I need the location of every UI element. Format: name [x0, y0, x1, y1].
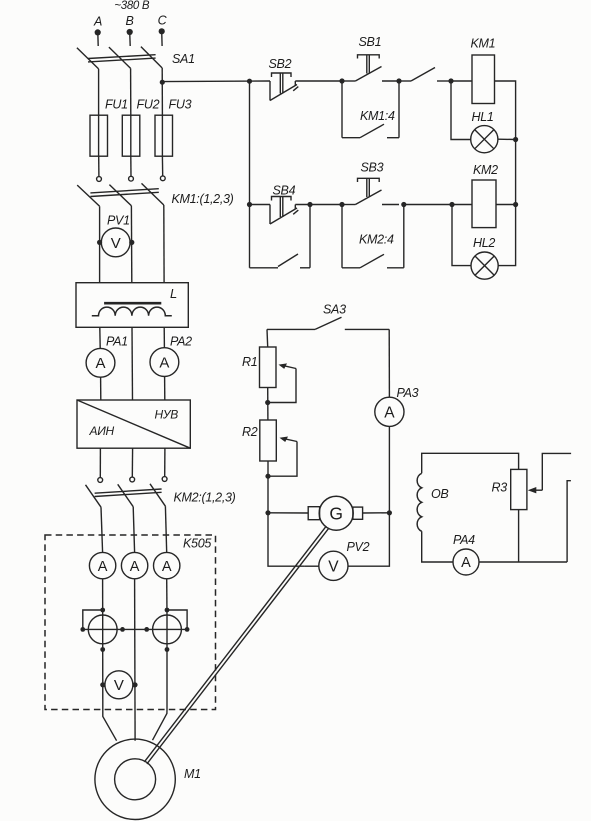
node wattmeter left top	[100, 608, 105, 613]
svg-text:R2: R2	[242, 425, 258, 439]
svg-text:KM2:4: KM2:4	[359, 233, 394, 247]
motor M1 stator	[95, 739, 175, 819]
voltmeter K505	[103, 684, 105, 686]
wire phase B L to AIN	[131, 327, 134, 400]
coil KM1	[472, 55, 495, 104]
node left bus rung2	[247, 202, 252, 207]
svg-text:~380 В: ~380 В	[114, 0, 150, 12]
svg-text:B: B	[125, 14, 133, 28]
contactor KM2 pole 3 fixed contact	[162, 477, 167, 482]
svg-text:R1: R1	[242, 355, 257, 369]
wire motor lead B	[134, 710, 136, 741]
svg-text:PA2: PA2	[170, 335, 192, 349]
node wattmeter right bottom	[165, 647, 170, 652]
converter diagonal	[77, 400, 190, 448]
auxiliary contact KM1:4	[342, 137, 360, 139]
wire phase A ammeter to wattmeter	[102, 579, 104, 615]
svg-text:A: A	[162, 559, 172, 575]
wire phase C wattmeter to box bottom	[166, 644, 168, 710]
wire KM1:4 branch left leg	[341, 81, 343, 138]
wire phase B to fuse	[130, 68, 132, 115]
svg-text:FU3: FU3	[169, 98, 192, 112]
svg-text:KM1:4: KM1:4	[360, 109, 395, 123]
svg-text:A: A	[95, 355, 105, 372]
svg-text:KM1: KM1	[471, 37, 496, 51]
contactor KM1 pole 1 fixed contact	[97, 177, 102, 182]
wire R3 bottom leg	[518, 510, 520, 562]
wattmeter left bypass bracket	[83, 610, 103, 629]
svg-text:НУВ: НУВ	[155, 408, 179, 422]
contactor KM2 pole 1 blade	[86, 485, 102, 507]
contactor KM1 pole 3 fixed contact	[160, 176, 165, 181]
contactor KM2 pole 3 blade	[150, 484, 165, 506]
generator G right brush	[353, 507, 363, 519]
wattmeter right circle	[153, 615, 182, 644]
wire to KM1 coil	[451, 80, 472, 82]
contactor KM1 linkage bar	[90, 189, 158, 193]
wattmeter right horizontal through	[153, 628, 188, 630]
wire field terminal 2	[567, 481, 571, 562]
rheostat R3 wiper arrow	[531, 489, 542, 491]
node SB1 left	[339, 78, 344, 83]
node wattmeter right east	[185, 627, 190, 632]
contactor KM2 pole 2 fixed contact	[130, 477, 135, 482]
rheostat R2	[260, 420, 277, 461]
svg-text:HL1: HL1	[472, 110, 494, 124]
node wattmeter left west	[80, 627, 85, 632]
svg-text:KM2: KM2	[473, 163, 498, 177]
wire R1 tap loop	[268, 369, 296, 403]
wire HL2 branch left leg	[452, 205, 471, 266]
wire phase C KM1 to L	[163, 205, 165, 283]
svg-text:A: A	[98, 559, 108, 575]
voltmeter PV2	[319, 551, 348, 580]
contactor KM1 pole 2 blade	[109, 185, 131, 206]
svg-text:A: A	[159, 355, 169, 372]
node PV1 left	[97, 240, 102, 245]
wire phase C PA2 to AIN	[164, 377, 166, 401]
node K505 voltmeter left	[100, 682, 105, 687]
inductor L winding	[92, 307, 172, 316]
measurement block K505 dashed outline	[45, 535, 216, 710]
ammeter PA2	[150, 348, 179, 377]
wire phase B stub	[129, 32, 132, 46]
fuse FU1	[90, 115, 108, 156]
inductor block L outline	[76, 283, 188, 328]
switch SA1 linkage bar	[88, 55, 156, 59]
contactor KM2 linkage bar	[95, 489, 162, 493]
svg-text:SB3: SB3	[361, 161, 384, 175]
wire wattmeter crosslink	[123, 628, 153, 630]
node R2 tap junction	[265, 474, 270, 479]
svg-text:SA3: SA3	[323, 303, 346, 317]
wire phase C stub	[161, 31, 163, 46]
wire motor lead A	[103, 710, 117, 741]
ammeter K505 phase B	[121, 552, 147, 578]
wire phase A KM2 to K505	[101, 507, 103, 552]
shaft motor to generator	[144, 526, 326, 762]
generator G armature	[319, 496, 353, 530]
wire phase C ammeter to wattmeter	[166, 579, 168, 615]
switch SA3	[267, 328, 315, 330]
rheostat R1 wiper arrow	[282, 365, 296, 368]
node wattmeter right top	[165, 608, 170, 613]
switch SA1 pole C blade	[141, 47, 162, 68]
wire PA3 to SA3	[388, 329, 390, 397]
contactor KM1 pole 3 blade	[142, 183, 164, 205]
inductor core bar	[104, 302, 161, 305]
node K505 voltmeter right	[132, 682, 137, 687]
wire phase B through K505	[134, 579, 136, 710]
wattmeter right bypass bracket	[167, 610, 187, 629]
converter block AIN/NUV outline	[77, 400, 190, 448]
wire right bus HL1 to KM2	[515, 140, 517, 205]
wire fuse FU1 bottom	[98, 156, 100, 176]
wire phase A AIN to KM2	[99, 448, 101, 477]
wire SB4 bypass left leg	[249, 205, 251, 268]
pushbutton SB3 (NO)	[342, 204, 355, 206]
ammeter K505 phase C	[154, 552, 180, 578]
wire KM2:4 branch right leg	[403, 205, 405, 268]
svg-text:K505: K505	[183, 537, 211, 551]
rheostat R3	[511, 469, 527, 509]
wire fuse FU3 bottom	[161, 156, 163, 176]
field winding OB	[417, 473, 422, 531]
svg-text:FU2: FU2	[137, 98, 160, 112]
motor M1 rotor	[115, 759, 156, 800]
wire right leg up through PA3	[388, 426, 390, 512]
svg-text:M1: M1	[184, 767, 201, 781]
wire KM1 coil to right bus	[495, 81, 516, 140]
wire left bus to SB4	[250, 204, 271, 206]
switch SA1 pole B blade	[109, 47, 131, 68]
wattmeter left vertical through	[102, 615, 104, 644]
wire generator right feed	[363, 512, 390, 514]
node generator right	[387, 510, 392, 515]
node HL2 branch	[449, 202, 454, 207]
wire PV2 to right leg	[348, 513, 389, 566]
node SB3 right	[401, 202, 406, 207]
voltmeter PV1	[100, 241, 102, 243]
lamp HL1	[471, 126, 498, 153]
auxiliary contact (NO) rung1	[399, 80, 411, 82]
wire HL1 to right bus	[498, 138, 516, 140]
node control left bus top	[247, 79, 252, 84]
wire PA4 to terminal leg	[479, 561, 567, 563]
node right bus at HL1	[513, 137, 518, 142]
wire SB4 bypass right leg	[309, 205, 311, 268]
wire phase A PA1 to AIN	[100, 377, 102, 400]
fuse FU3	[155, 115, 173, 156]
svg-text:G: G	[329, 504, 343, 524]
contactor KM2 pole 2 blade	[118, 484, 134, 506]
coil KM2	[472, 180, 496, 228]
ammeter PA3	[375, 397, 404, 426]
wire field top	[422, 453, 519, 473]
rheostat R1	[260, 347, 277, 388]
auxiliary contact SB4 bypass	[250, 267, 279, 269]
node right bus at KM2	[513, 202, 518, 207]
wire phase B KM1 to L	[130, 206, 132, 283]
wire left bus rung1 to rung2	[249, 81, 251, 204]
wattmeter right vertical through	[166, 615, 168, 644]
node SB1 right	[396, 78, 401, 83]
lamp HL2	[471, 252, 498, 279]
auxiliary contact KM2:4	[342, 267, 360, 269]
wire phase A L to PA1	[99, 327, 101, 348]
wire R2 tap loop	[268, 442, 297, 477]
svg-text:SB2: SB2	[269, 57, 292, 71]
node crosslink mid	[144, 627, 149, 632]
contactor KM1 pole 1 blade	[77, 185, 99, 206]
svg-text:SB1: SB1	[359, 35, 382, 49]
svg-text:SA1: SA1	[172, 52, 195, 66]
svg-text:PA4: PA4	[453, 533, 475, 547]
ammeter K505 phase A	[89, 552, 115, 578]
svg-text:KM2:(1,2,3): KM2:(1,2,3)	[174, 491, 236, 505]
svg-text:A: A	[93, 15, 102, 29]
switch SA1 pole A blade	[77, 48, 99, 69]
svg-text:SB4: SB4	[273, 184, 296, 198]
node phase C / control circuit tap	[160, 80, 165, 85]
svg-text:PV2: PV2	[347, 540, 370, 554]
pushbutton SB4 (NC)	[269, 205, 271, 225]
ammeter PA4	[453, 549, 479, 575]
wire fuse FU2 bottom	[130, 156, 132, 176]
wire phase C KM2 to K505	[165, 506, 166, 552]
node wattmeter left east	[120, 627, 125, 632]
wire HL1 branch left leg	[451, 81, 471, 140]
wire SA3 to R1	[266, 329, 269, 347]
rheostat R2 wiper arrow	[283, 438, 297, 441]
wire phase B AIN to KM2	[131, 448, 133, 477]
svg-text:L: L	[170, 286, 177, 301]
wire left bus down to PV2 loop	[268, 513, 304, 566]
wattmeter left circle	[88, 615, 117, 644]
wire phase C AIN to KM2	[164, 448, 166, 477]
node HL1 branch	[448, 78, 453, 83]
svg-text:HL2: HL2	[473, 236, 495, 250]
svg-text:KM1:(1,2,3): KM1:(1,2,3)	[172, 192, 234, 206]
wire OB bottom	[422, 531, 453, 562]
contactor KM2 pole 1 fixed contact	[98, 478, 103, 483]
node wattmeter left bottom	[100, 647, 105, 652]
wire SB3 to HL2 node	[404, 204, 452, 206]
node SB3 left	[339, 202, 344, 207]
fuse FU2	[122, 115, 140, 156]
wire phase B KM2 to K505	[133, 507, 134, 553]
svg-text:A: A	[384, 404, 395, 421]
generator G left brush	[308, 507, 319, 520]
wire R1 to R2	[267, 388, 269, 421]
svg-text:PA3: PA3	[397, 386, 419, 400]
wire phase C to fuse	[161, 68, 163, 115]
svg-text:FU1: FU1	[105, 98, 128, 112]
svg-text:PV1: PV1	[107, 214, 130, 228]
wire KM2:4 branch left leg	[341, 205, 343, 268]
svg-text:R3: R3	[492, 481, 508, 495]
contactor KM1 pole 2 fixed contact	[129, 176, 134, 181]
wire SB2 to SB1	[295, 80, 342, 82]
pushbutton SB1 (NO start)	[342, 80, 355, 82]
wire to KM2 coil	[452, 204, 472, 206]
wire KM2 coil to right bus	[496, 204, 516, 206]
node generator left	[265, 510, 270, 515]
svg-text:V: V	[111, 235, 121, 252]
svg-text:C: C	[158, 14, 168, 28]
svg-text:PA1: PA1	[106, 335, 128, 349]
wire phase A stub	[97, 32, 99, 46]
svg-text:A: A	[461, 555, 471, 571]
wire generator left feed	[268, 512, 308, 514]
wire phase A wattmeter to V-node	[102, 644, 104, 710]
node R1 tap junction	[265, 400, 270, 405]
svg-text:ОВ: ОВ	[431, 487, 448, 501]
wire SB4 to SB3	[295, 204, 342, 206]
pushbutton SB2 (NC stop)	[269, 81, 271, 101]
wire R2 to generator bus	[267, 461, 269, 513]
node SB4 bypass right	[307, 202, 312, 207]
wire motor lead C	[153, 710, 168, 741]
wire R3 tap to terminal	[542, 453, 571, 490]
wire phase C L to PA2	[163, 327, 165, 347]
wire phase A to fuse	[98, 69, 100, 115]
svg-text:V: V	[114, 677, 124, 694]
wire phase A KM1 to L	[99, 206, 101, 282]
ammeter PA1	[86, 348, 115, 377]
wire KM1:4 branch right leg	[398, 81, 400, 138]
svg-text:A: A	[130, 559, 140, 575]
svg-text:V: V	[328, 558, 339, 575]
wire HL2 to right bus	[498, 205, 515, 266]
node PV1 right	[129, 240, 134, 245]
wattmeter left horizontal through	[83, 628, 123, 630]
svg-text:АИН: АИН	[89, 424, 115, 438]
wire control feed from phase C	[162, 80, 270, 83]
